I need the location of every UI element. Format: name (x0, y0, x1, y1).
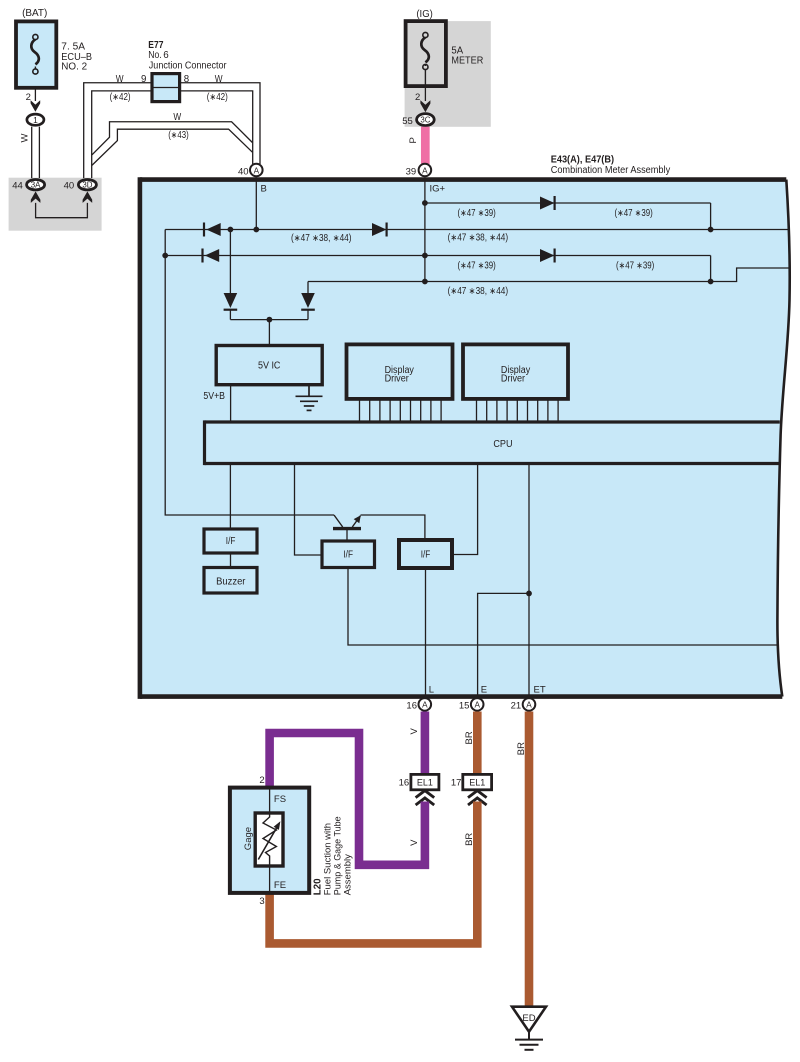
ground ED triangle (512, 1007, 546, 1032)
svg-text:3A: 3A (31, 181, 41, 190)
svg-text:E: E (481, 685, 487, 696)
transistor Q1 (333, 515, 361, 541)
svg-text:I/F: I/F (421, 550, 431, 561)
wire P pink 3C to pin 39 (421, 127, 430, 164)
I/F U6 block (399, 540, 452, 568)
CPU block (205, 420, 780, 465)
svg-text:40: 40 (64, 181, 75, 192)
connector EL1 no16 (411, 774, 439, 789)
svg-text:Buzzer: Buzzer (216, 576, 246, 587)
svg-text:(∗47 ∗38, ∗44): (∗47 ∗38, ∗44) (291, 233, 352, 244)
wire branch ET to pin E (478, 593, 529, 697)
label E77 No.6 Junction Connector (148, 40, 227, 72)
svg-text:Combination Meter Assembly: Combination Meter Assembly (551, 165, 671, 176)
svg-text:BR: BR (516, 742, 527, 755)
svg-text:Junction Connector: Junction Connector (149, 60, 227, 71)
svg-text:5V IC: 5V IC (258, 360, 281, 371)
svg-text:(∗47 ∗39): (∗47 ∗39) (458, 208, 496, 219)
pin 21 connector A (523, 698, 536, 711)
svg-text:EL1: EL1 (417, 777, 433, 787)
svg-text:21: 21 (511, 701, 522, 712)
pin 39 connector A (419, 164, 432, 177)
svg-text:3: 3 (259, 896, 264, 907)
wire V EL1 to fuel gauge (270, 733, 425, 865)
I/F U4 block (204, 529, 257, 553)
junction dot above 5V IC (267, 317, 273, 323)
wire W E77 pin8 to pin40 (outer) (180, 83, 260, 164)
svg-text:(∗47 ∗39): (∗47 ∗39) (615, 208, 653, 219)
wire W (*43) bottom line (92, 129, 253, 165)
diode D7 (down, right) (301, 282, 315, 320)
pin 40 connector A (250, 164, 263, 177)
svg-text:NO. 2: NO. 2 (61, 62, 87, 73)
svg-text:W: W (173, 112, 182, 123)
wire 5V+B to CPU (230, 385, 232, 422)
svg-text:W: W (20, 134, 31, 143)
svg-text:ET: ET (534, 685, 546, 696)
connector EL1 no17 (463, 774, 492, 789)
svg-text:(IG): (IG) (416, 9, 432, 20)
svg-text:FE: FE (274, 880, 286, 891)
svg-text:BR: BR (464, 731, 475, 744)
svg-text:2: 2 (26, 92, 31, 103)
wire I/F U6 to pin L (425, 568, 427, 697)
wire fuse to splice 3C (424, 86, 426, 101)
svg-text:A: A (422, 701, 428, 710)
5V IC block (216, 346, 322, 385)
svg-text:A: A (474, 701, 480, 710)
ground symbol ED (515, 1032, 543, 1050)
svg-text:15: 15 (459, 701, 470, 712)
display driver U3 (463, 344, 568, 399)
svg-text:Gage: Gage (243, 827, 254, 850)
fuel gauge L20 box (230, 788, 309, 893)
wire BR EL1 to fuel gauge FE (270, 802, 478, 944)
svg-text:I/F: I/F (343, 550, 353, 561)
svg-text:A: A (254, 166, 260, 175)
diode D2 row B left (pointing left) (204, 223, 221, 237)
svg-text:FS: FS (274, 794, 286, 805)
wire W E77 pin8 to pin40 (inner) (180, 91, 253, 164)
chevron EL1 no17 (468, 791, 487, 805)
combination meter assembly box E43/E47 (140, 177, 790, 699)
wire I/F U4 to buzzer (230, 553, 232, 568)
svg-text:ED: ED (522, 1013, 535, 1024)
svg-text:3D: 3D (82, 181, 92, 190)
svg-text:I/F: I/F (226, 536, 236, 547)
arrow into splice 3C (420, 100, 430, 112)
svg-text:W: W (116, 74, 125, 85)
wire BR pin15 to EL1 (473, 712, 482, 775)
wire left vertical to transistor (165, 230, 334, 516)
svg-text:EL1: EL1 (469, 777, 485, 787)
I/F U5 block (322, 541, 375, 568)
wire W E77 pin9 to 3D (inner) (92, 91, 152, 178)
svg-text:L: L (429, 685, 434, 696)
wire CPU to pin ET (528, 464, 530, 698)
wire fuse to splice 1 (34, 88, 36, 101)
ground (5V IC) (296, 385, 323, 411)
fuse 7.5A ECU-B NO.2 (16, 21, 56, 87)
svg-text:P: P (408, 137, 419, 143)
svg-text:METER: METER (451, 56, 483, 67)
wire joining down diodes to 5V IC (230, 320, 308, 346)
svg-text:55: 55 (402, 116, 413, 127)
wire W (*43) top line (92, 122, 253, 155)
svg-text:IG+: IG+ (430, 184, 446, 195)
pin 16 connector A (419, 698, 432, 711)
svg-text:Driver: Driver (385, 373, 410, 384)
svg-text:B: B (261, 184, 267, 195)
diode D3 row B right (372, 223, 387, 237)
chevron EL1 no16 (416, 791, 435, 805)
wire BR pin21 to ground (525, 712, 534, 1008)
svg-text:A: A (422, 166, 428, 175)
svg-text:CPU: CPU (493, 439, 512, 450)
gage variable resistor (255, 813, 283, 866)
svg-text:BR: BR (464, 833, 475, 846)
svg-text:(∗42): (∗42) (110, 92, 131, 103)
svg-text:E43(A), E47(B): E43(A), E47(B) (551, 154, 614, 165)
wire transistor emitter to I/F U6 (361, 515, 425, 540)
wire W E77 pin9 to 3D (outer) (84, 83, 152, 178)
svg-text:A: A (526, 701, 532, 710)
svg-text:Assembly: Assembly (343, 854, 354, 895)
svg-text:17: 17 (451, 777, 462, 788)
wire row B (165, 229, 789, 231)
splice 3C (417, 114, 435, 126)
diode D4 row C left (pointing left) (203, 249, 220, 263)
wire row D with step to edge (308, 268, 789, 282)
svg-text:16: 16 (406, 701, 417, 712)
wire row A (425, 203, 711, 230)
wire linking 3A and 3D (36, 203, 88, 218)
svg-text:Driver: Driver (501, 373, 526, 384)
buzzer block (204, 568, 257, 594)
diode D1 row A (540, 196, 555, 210)
bus wires driver U3 to CPU (477, 399, 559, 422)
bus wires driver U2 to CPU (360, 399, 442, 422)
wire V pin16 to EL1 (421, 712, 430, 775)
svg-text:V: V (409, 839, 420, 846)
wire I/F U5 to box edge (348, 568, 778, 646)
splice 3D (78, 180, 96, 190)
display driver U2 (347, 344, 453, 399)
svg-text:16: 16 (399, 777, 410, 788)
junction dot on ET wire (526, 591, 532, 597)
fuse 5A METER (406, 21, 446, 86)
gray splice box (3A/3D) (9, 178, 102, 231)
svg-text:1: 1 (33, 115, 38, 125)
label E43(A), E47(B) Combination Meter Assembly (551, 154, 671, 176)
svg-text:(∗47 ∗38, ∗44): (∗47 ∗38, ∗44) (448, 233, 509, 244)
wire IG+ vertical (424, 177, 426, 281)
diode D6 (down, left) (224, 230, 238, 320)
wire I/F U6 to CPU (452, 464, 478, 555)
svg-text:(∗42): (∗42) (207, 92, 228, 103)
splice 3A (27, 180, 45, 190)
arrow into splice 1 (31, 100, 41, 112)
svg-text:V: V (409, 728, 420, 735)
svg-text:(BAT): (BAT) (22, 8, 47, 19)
svg-text:(∗47 ∗39): (∗47 ∗39) (616, 261, 654, 272)
fuse value label 5A METER (451, 45, 483, 66)
svg-text:3C: 3C (420, 116, 430, 125)
svg-text:39: 39 (406, 166, 417, 177)
svg-text:44: 44 (12, 181, 23, 192)
svg-text:2: 2 (415, 92, 420, 103)
arrow out of splice 3D (83, 191, 93, 203)
gray box behind IG fuse (405, 21, 491, 127)
wire row C (165, 256, 710, 282)
wire CPU to I/F U4 (229, 464, 231, 530)
fuse value label 7.5A ECU-B NO.2 (61, 42, 92, 73)
svg-text:2: 2 (259, 775, 264, 786)
svg-text:(∗43): (∗43) (168, 130, 189, 141)
junction connector E77 (152, 74, 180, 102)
svg-text:(∗47 ∗39): (∗47 ∗39) (458, 261, 496, 272)
svg-text:5V+B: 5V+B (203, 391, 225, 402)
wire CPU to I/F U5 (295, 464, 323, 556)
wire W double line splice 1 to 3A (32, 127, 40, 178)
junction dots top rows (162, 200, 713, 284)
svg-text:40: 40 (238, 166, 249, 177)
arrow out of splice 3A (31, 191, 41, 203)
wire B vertical (255, 177, 257, 229)
svg-text:W: W (215, 74, 224, 85)
pin 15 connector A (471, 698, 484, 711)
svg-text:(∗47 ∗38, ∗44): (∗47 ∗38, ∗44) (448, 286, 509, 297)
diode D5 row C right (540, 249, 555, 263)
splice 1 (27, 114, 44, 125)
